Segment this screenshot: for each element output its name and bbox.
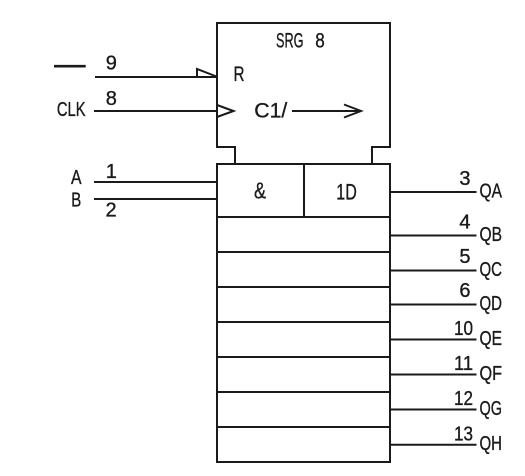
svg-text:1D: 1D [336,180,357,205]
svg-text:SRG: SRG [276,30,304,53]
svg-text:5: 5 [459,246,470,268]
svg-text:QD: QD [480,293,503,315]
svg-text:QA: QA [480,180,503,202]
svg-text:C1/: C1/ [254,100,287,123]
svg-text:QH: QH [480,433,503,455]
svg-text:11: 11 [454,353,473,375]
svg-text:QF: QF [480,363,503,385]
svg-text:3: 3 [459,168,470,190]
svg-text:12: 12 [454,388,473,410]
svg-text:1: 1 [106,161,117,183]
svg-text:13: 13 [454,424,473,446]
svg-text:QB: QB [480,224,503,246]
svg-text:10: 10 [454,318,473,340]
svg-text:CLK: CLK [57,99,86,121]
svg-text:B: B [71,190,81,212]
svg-text:R: R [234,63,245,86]
svg-text:8: 8 [106,88,117,110]
svg-text:QG: QG [480,398,503,420]
svg-text:4: 4 [459,211,470,233]
svg-text:9: 9 [106,53,117,75]
svg-text:QC: QC [480,259,503,281]
svg-text:QE: QE [480,328,503,350]
svg-text:6: 6 [459,280,470,302]
svg-text:&: & [254,177,266,203]
svg-text:8: 8 [315,30,325,53]
svg-text:A: A [71,167,82,189]
svg-text:2: 2 [106,199,117,221]
